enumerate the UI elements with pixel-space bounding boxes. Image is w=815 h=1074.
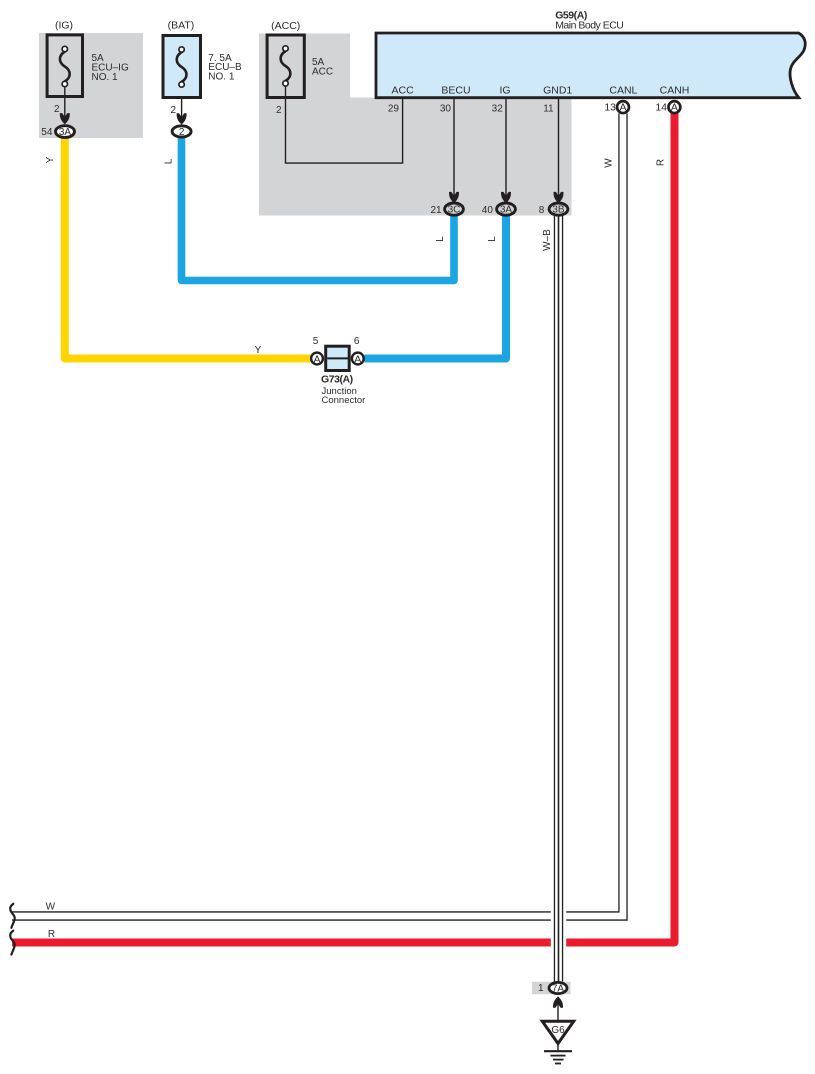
svg-text:11: 11 (543, 104, 554, 115)
svg-text:CANH: CANH (660, 85, 690, 97)
svg-text:NO. 1: NO. 1 (208, 72, 235, 83)
svg-text:Connector: Connector (322, 395, 366, 406)
svg-text:(ACC): (ACC) (271, 20, 300, 32)
svg-text:40: 40 (482, 205, 494, 216)
svg-text:29: 29 (388, 104, 400, 115)
svg-text:Y: Y (45, 156, 56, 163)
svg-text:2: 2 (170, 105, 176, 116)
svg-text:R: R (48, 929, 55, 940)
svg-text:2: 2 (54, 104, 60, 115)
svg-text:W: W (46, 901, 56, 912)
svg-text:CANL: CANL (609, 85, 637, 97)
svg-text:A: A (313, 353, 320, 365)
svg-text:Main Body ECU: Main Body ECU (555, 19, 623, 31)
svg-text:2: 2 (179, 127, 185, 138)
svg-text:3A: 3A (500, 205, 513, 216)
svg-text:14: 14 (655, 101, 667, 113)
svg-text:ACC: ACC (392, 85, 415, 97)
svg-text:30: 30 (440, 104, 452, 115)
svg-text:(IG): (IG) (55, 20, 73, 32)
svg-text:BECU: BECU (441, 85, 470, 97)
svg-text:A: A (619, 102, 626, 114)
svg-text:3A: 3A (59, 127, 72, 138)
svg-text:L: L (435, 236, 446, 242)
svg-text:W: W (604, 158, 615, 168)
svg-text:G6: G6 (551, 1025, 565, 1036)
svg-text:8: 8 (539, 205, 545, 216)
svg-text:W–B: W–B (542, 229, 553, 251)
svg-text:IG: IG (499, 85, 510, 97)
svg-text:L: L (164, 158, 175, 164)
svg-text:6: 6 (354, 336, 360, 347)
svg-text:L: L (487, 236, 498, 242)
svg-text:5: 5 (313, 336, 319, 347)
svg-text:Y: Y (255, 345, 262, 356)
svg-text:13: 13 (604, 101, 616, 113)
svg-text:2: 2 (276, 105, 282, 116)
svg-text:3C: 3C (448, 205, 461, 216)
svg-text:A: A (354, 353, 361, 365)
svg-text:ACC: ACC (312, 67, 333, 78)
svg-text:NO. 1: NO. 1 (92, 72, 119, 83)
svg-text:1: 1 (538, 983, 544, 994)
svg-text:(BAT): (BAT) (168, 20, 195, 32)
svg-text:GND1: GND1 (543, 85, 572, 97)
svg-text:7A: 7A (552, 984, 565, 995)
svg-text:3B: 3B (552, 205, 565, 216)
svg-text:R: R (656, 159, 667, 166)
svg-text:A: A (671, 102, 678, 114)
svg-text:54: 54 (41, 127, 53, 138)
svg-text:32: 32 (492, 104, 504, 115)
svg-text:21: 21 (430, 205, 442, 216)
svg-text:G73(A): G73(A) (321, 373, 353, 385)
